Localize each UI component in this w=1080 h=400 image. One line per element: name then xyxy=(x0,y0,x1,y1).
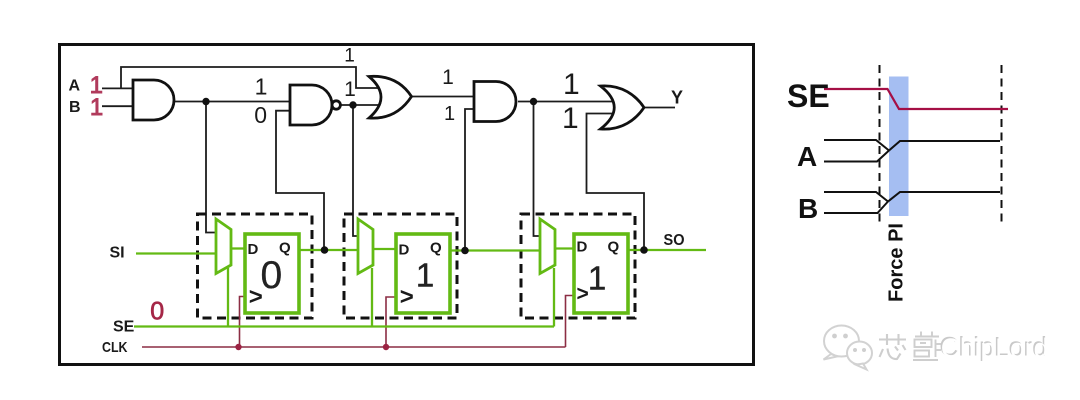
svg-text:1: 1 xyxy=(344,78,356,101)
svg-text:A: A xyxy=(69,78,81,95)
svg-text:>: > xyxy=(577,283,589,306)
svg-text:A: A xyxy=(797,141,817,172)
svg-text:1: 1 xyxy=(444,103,455,125)
svg-text:1: 1 xyxy=(563,68,580,101)
svg-text:1: 1 xyxy=(442,66,454,89)
svg-text:1: 1 xyxy=(255,74,268,100)
svg-text:1: 1 xyxy=(588,259,606,296)
svg-text:Y: Y xyxy=(671,88,683,108)
svg-text:CLK: CLK xyxy=(102,339,128,356)
svg-text:Q: Q xyxy=(430,240,442,257)
svg-text:B: B xyxy=(69,99,81,116)
svg-text:0: 0 xyxy=(261,254,283,297)
svg-text:1: 1 xyxy=(562,102,579,135)
svg-text:D: D xyxy=(399,242,410,259)
svg-text:D: D xyxy=(248,241,259,258)
svg-text:SE: SE xyxy=(113,319,135,336)
svg-text:1: 1 xyxy=(90,94,103,121)
svg-text:B: B xyxy=(798,193,818,224)
svg-text:D: D xyxy=(577,239,588,256)
svg-text:Q: Q xyxy=(608,239,620,256)
svg-text:0: 0 xyxy=(150,298,164,326)
svg-text:ChipLord: ChipLord xyxy=(941,333,1049,363)
svg-text:1: 1 xyxy=(416,256,434,293)
svg-text:0: 0 xyxy=(254,102,267,128)
svg-text:1: 1 xyxy=(344,46,355,67)
svg-text:>: > xyxy=(249,284,263,311)
svg-text:SI: SI xyxy=(110,245,125,262)
svg-text:SO: SO xyxy=(664,232,685,249)
svg-text:Force PI: Force PI xyxy=(886,223,908,302)
svg-text:>: > xyxy=(400,284,414,311)
svg-text:SE: SE xyxy=(787,78,830,114)
